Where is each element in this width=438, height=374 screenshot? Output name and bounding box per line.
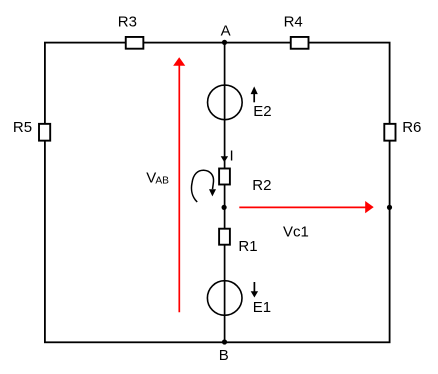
arrow V_AB (red, up) bbox=[173, 57, 185, 312]
svg-text:B: B bbox=[219, 347, 229, 364]
arrow E2 polarity (up) bbox=[251, 86, 258, 102]
resistor R1 bbox=[219, 229, 230, 245]
svg-text:E1: E1 bbox=[253, 299, 271, 316]
mesh current loop arrow at R2 bbox=[192, 170, 216, 202]
svg-text:R3: R3 bbox=[118, 13, 137, 30]
arrow E1 polarity (down) bbox=[251, 282, 258, 298]
svg-text:I: I bbox=[230, 148, 234, 165]
resistor R4 bbox=[291, 37, 309, 49]
svg-text:R6: R6 bbox=[402, 119, 421, 136]
node A junction dot bbox=[222, 40, 227, 45]
resistor R3 bbox=[126, 37, 144, 49]
node junction dot center (Vc1 tap) bbox=[222, 205, 227, 210]
svg-text:Vc1: Vc1 bbox=[283, 224, 309, 241]
node junction dot right (Vc1 end) bbox=[387, 205, 392, 210]
svg-text:R1: R1 bbox=[238, 238, 257, 255]
svg-text:R4: R4 bbox=[284, 13, 303, 30]
arrow current I (down) on center wire bbox=[221, 156, 228, 162]
voltage source E2 bbox=[208, 85, 243, 120]
svg-text:VAB: VAB bbox=[146, 170, 169, 187]
svg-text:R5: R5 bbox=[13, 119, 32, 136]
wire outer loop (top, left, right, bottom) bbox=[45, 43, 390, 343]
voltage source E1 bbox=[207, 281, 242, 316]
svg-text:R2: R2 bbox=[252, 177, 271, 194]
resistor R5 bbox=[39, 124, 50, 141]
resistor R6 bbox=[384, 124, 395, 141]
wire center branch A to B bbox=[224, 42, 226, 342]
svg-text:E2: E2 bbox=[253, 103, 271, 120]
svg-text:A: A bbox=[221, 23, 231, 40]
node B junction dot bbox=[222, 339, 227, 344]
resistor R2 bbox=[219, 169, 230, 185]
arrow Vc1 (red, right) bbox=[239, 201, 373, 213]
